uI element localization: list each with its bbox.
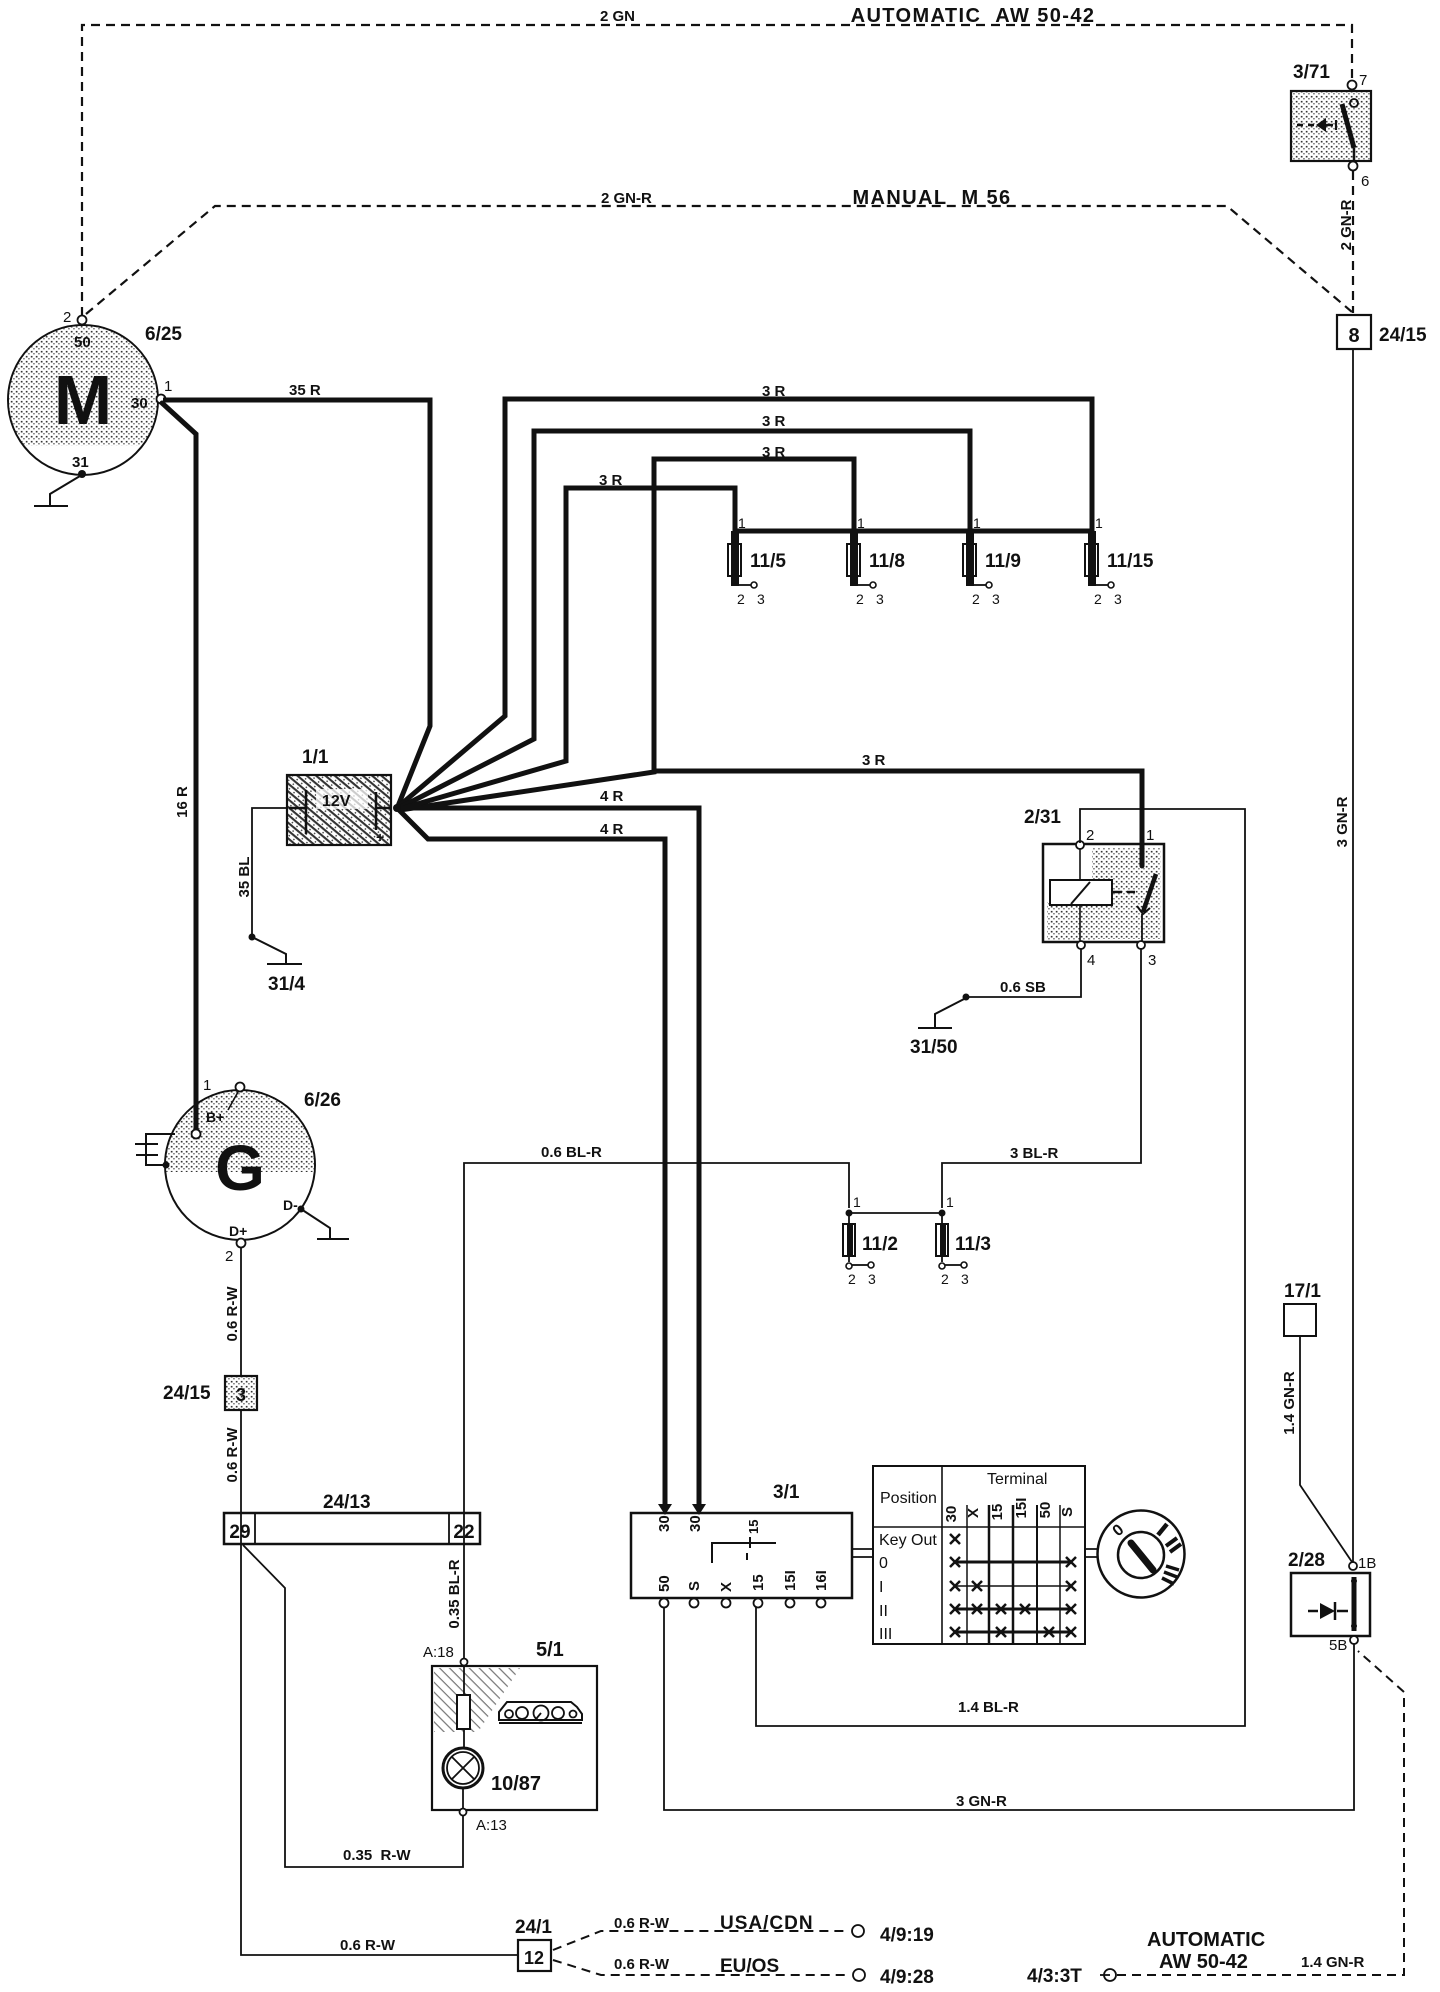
battery 1/1 bbox=[287, 747, 391, 845]
svg-text:B+: B+ bbox=[206, 1109, 224, 1125]
ground 31 of M bbox=[34, 476, 80, 506]
svg-text:4/9:19: 4/9:19 bbox=[880, 1925, 934, 1946]
wire dashed USA/CDN to 4/9:19 bbox=[553, 1931, 849, 1950]
pin 2 of relay bbox=[1076, 841, 1084, 849]
svg-text:3 R: 3 R bbox=[862, 752, 886, 769]
wire 35 BL battery negative bbox=[252, 808, 287, 936]
wire 0.6 BL-R from 11/2 to connector 22 bbox=[464, 1163, 849, 1513]
key switch symbol bbox=[1098, 1511, 1185, 1598]
wire 3 R to 11/5 bbox=[400, 488, 735, 809]
svg-text:0.6 R-W: 0.6 R-W bbox=[224, 1427, 241, 1483]
svg-text:S: S bbox=[1059, 1507, 1076, 1517]
svg-text:2: 2 bbox=[737, 591, 745, 607]
wire 35 R bbox=[163, 400, 430, 806]
table Position/Terminal bbox=[873, 1466, 1085, 1644]
svg-text:24/15: 24/15 bbox=[163, 1383, 211, 1404]
wire 3 R to relay 2/31 bbox=[654, 771, 1142, 864]
svg-text:D-: D- bbox=[283, 1197, 298, 1213]
gauge cluster icon bbox=[499, 1702, 582, 1723]
svg-text:0.6 R-W: 0.6 R-W bbox=[224, 1286, 241, 1342]
svg-text:3: 3 bbox=[1148, 952, 1156, 969]
svg-text:2: 2 bbox=[972, 591, 980, 607]
svg-text:30: 30 bbox=[656, 1515, 673, 1532]
svg-text:2: 2 bbox=[63, 309, 71, 326]
svg-text:3: 3 bbox=[868, 1271, 876, 1287]
connector 24/1 pin 12 bbox=[515, 1917, 552, 1971]
svg-text:0.35 BL-R: 0.35 BL-R bbox=[446, 1559, 463, 1628]
svg-text:4 R: 4 R bbox=[600, 821, 624, 838]
svg-text:2: 2 bbox=[941, 1271, 949, 1287]
wire 3 R to 11/8 and relay bbox=[400, 459, 854, 810]
fuse 11/3 bbox=[936, 1194, 991, 1287]
connector 24/15 pin 8 bbox=[1337, 315, 1427, 349]
svg-text:3 GN-R: 3 GN-R bbox=[1334, 796, 1351, 847]
svg-text:29: 29 bbox=[229, 1522, 250, 1543]
svg-text:3: 3 bbox=[992, 591, 1000, 607]
svg-text:2/28: 2/28 bbox=[1288, 1550, 1325, 1571]
fuse 11/2 bbox=[843, 1194, 898, 1287]
pin 15I of 3/1 bbox=[786, 1599, 795, 1608]
svg-text:2 GN-R: 2 GN-R bbox=[601, 190, 652, 207]
node battery negative junction bbox=[249, 934, 256, 941]
svg-text:2 GN-R: 2 GN-R bbox=[1338, 199, 1355, 250]
svg-text:0.6 SB: 0.6 SB bbox=[1000, 979, 1046, 996]
svg-text:D+: D+ bbox=[229, 1223, 247, 1239]
wire link 11/2 to 11/3 bbox=[849, 1212, 942, 1214]
wire relay pin 3 to 3 BL-R net bbox=[942, 948, 1141, 1208]
svg-text:1.4 GN-R: 1.4 GN-R bbox=[1281, 1371, 1298, 1435]
svg-text:3 R: 3 R bbox=[599, 472, 623, 489]
svg-text:35 R: 35 R bbox=[289, 382, 321, 399]
svg-text:50: 50 bbox=[74, 334, 91, 351]
svg-text:I: I bbox=[879, 1579, 883, 1596]
wire dashed 2 GN-R from pin 6 to connector 8 bbox=[1352, 171, 1354, 313]
svg-text:III: III bbox=[879, 1626, 892, 1643]
svg-text:X: X bbox=[965, 1508, 982, 1518]
generator G 6/26 bbox=[165, 1090, 341, 1240]
svg-text:15: 15 bbox=[746, 1520, 761, 1534]
svg-text:11/2: 11/2 bbox=[862, 1234, 898, 1255]
svg-text:2: 2 bbox=[1094, 591, 1102, 607]
svg-text:8: 8 bbox=[1348, 325, 1359, 347]
svg-text:0.6 R-W: 0.6 R-W bbox=[614, 1915, 670, 1932]
ground 31/50 bbox=[918, 998, 966, 1028]
wire 3 R to 11/15 bbox=[399, 399, 1092, 806]
svg-text:3: 3 bbox=[876, 591, 884, 607]
ground chassis of G bbox=[163, 1162, 170, 1169]
wire 0.6 R-W from D+ bbox=[240, 1247, 242, 1376]
svg-text:6: 6 bbox=[1361, 173, 1369, 190]
instrument cluster 5/1 bbox=[432, 1639, 597, 1810]
table row contacts bbox=[950, 1534, 1076, 1637]
svg-text:M: M bbox=[54, 361, 112, 439]
ignition switch 3/1 bbox=[631, 1482, 852, 1598]
wire 16 R bbox=[162, 403, 196, 1131]
wire dashed EU/OS to 4/9:28 bbox=[553, 1960, 850, 1975]
ignition coil 11/5 bbox=[728, 515, 786, 607]
wire 16 R end into G bbox=[194, 1086, 199, 1131]
wire dashed 2 GN (automatic) bbox=[82, 25, 1352, 316]
fuse inside 5/1 bbox=[463, 1666, 465, 1748]
pin 16I of 3/1 bbox=[817, 1599, 826, 1608]
svg-text:AW 50-42: AW 50-42 bbox=[1159, 1951, 1248, 1973]
svg-text:AUTOMATIC: AUTOMATIC bbox=[1147, 1929, 1265, 1951]
pin 4 of relay bbox=[1077, 941, 1085, 949]
wire 0.6 R-W below connector 3 bbox=[240, 1410, 242, 1513]
pin 3 of relay bbox=[1137, 941, 1145, 949]
svg-text:3 R: 3 R bbox=[762, 383, 786, 400]
relay 2/31 bbox=[1024, 807, 1164, 942]
svg-text:6/25: 6/25 bbox=[145, 324, 182, 345]
svg-text:11/9: 11/9 bbox=[985, 551, 1021, 572]
svg-text:24/15: 24/15 bbox=[1379, 325, 1427, 346]
svg-text:0.6 BL-R: 0.6 BL-R bbox=[541, 1144, 602, 1161]
wire link 3/1 to table bbox=[852, 1549, 873, 1557]
svg-text:0.6 R-W: 0.6 R-W bbox=[340, 1937, 396, 1954]
svg-text:2: 2 bbox=[1086, 827, 1094, 844]
wire relay pin 2 to 1.4 BL-R net bbox=[756, 809, 1245, 1726]
connector 24/13 bbox=[224, 1492, 480, 1544]
svg-text:2: 2 bbox=[225, 1248, 233, 1265]
wire 0.35 BL-R from pin 22 to A:18 bbox=[463, 1514, 465, 1659]
svg-text:Terminal: Terminal bbox=[987, 1471, 1047, 1488]
svg-text:3/1: 3/1 bbox=[773, 1482, 800, 1503]
svg-text:17/1: 17/1 bbox=[1284, 1281, 1321, 1302]
svg-text:11/5: 11/5 bbox=[750, 551, 786, 572]
ignition coil 11/9 bbox=[963, 515, 1021, 607]
svg-text:1: 1 bbox=[164, 378, 172, 395]
svg-text:1: 1 bbox=[946, 1194, 954, 1210]
svg-text:1: 1 bbox=[973, 515, 981, 531]
svg-text:3: 3 bbox=[236, 1385, 246, 1405]
svg-text:7: 7 bbox=[1359, 72, 1367, 89]
svg-text:2 GN: 2 GN bbox=[600, 8, 635, 25]
pin 31 of M bbox=[78, 470, 86, 478]
svg-text:10/87: 10/87 bbox=[491, 1773, 541, 1795]
svg-text:2: 2 bbox=[848, 1271, 856, 1287]
wire 0.6 R-W from pin 29 down bbox=[241, 1514, 517, 1955]
svg-text:4: 4 bbox=[1087, 952, 1095, 969]
diode unit 2/28 bbox=[1288, 1550, 1370, 1636]
pin 1B of 2/28 bbox=[1349, 1562, 1357, 1570]
svg-text:16I: 16I bbox=[813, 1570, 830, 1591]
svg-text:0: 0 bbox=[879, 1555, 888, 1572]
svg-text:3: 3 bbox=[1114, 591, 1122, 607]
svg-text:30: 30 bbox=[131, 395, 148, 412]
wire 3 GN-R from pin 50 to 5B bbox=[664, 1607, 1354, 1810]
component 17/1 bbox=[1284, 1281, 1321, 1336]
wire 0.6 SB from pin 4 bbox=[966, 949, 1081, 997]
wire link table to key bbox=[1085, 1549, 1098, 1557]
wire 4 R upper bbox=[399, 808, 699, 1506]
svg-text:5/1: 5/1 bbox=[536, 1639, 564, 1661]
svg-text:30: 30 bbox=[687, 1515, 704, 1532]
svg-text:1: 1 bbox=[1095, 515, 1103, 531]
svg-text:11/15: 11/15 bbox=[1107, 551, 1154, 572]
svg-text:4/9:28: 4/9:28 bbox=[880, 1967, 934, 1988]
svg-text:EU/OS: EU/OS bbox=[720, 1956, 779, 1977]
svg-text:Key Out: Key Out bbox=[879, 1532, 937, 1549]
wire dashed 2 GN-R (manual) bbox=[86, 206, 1352, 314]
pin X of 3/1 bbox=[722, 1599, 731, 1608]
svg-text:3: 3 bbox=[961, 1271, 969, 1287]
pin 1/30 of M bbox=[157, 395, 166, 404]
svg-text:USA/CDN: USA/CDN bbox=[720, 1913, 814, 1934]
pin 2 of M bbox=[78, 316, 87, 325]
wire lamp to A:13 bbox=[462, 1788, 464, 1809]
svg-text:4 R: 4 R bbox=[600, 788, 624, 805]
svg-text:1: 1 bbox=[738, 515, 746, 531]
svg-text:50: 50 bbox=[656, 1575, 673, 1592]
svg-text:3 R: 3 R bbox=[762, 413, 786, 430]
svg-text:12: 12 bbox=[524, 1948, 544, 1968]
svg-text:1: 1 bbox=[1146, 827, 1154, 844]
svg-text:16 R: 16 R bbox=[174, 786, 191, 818]
svg-text:1.4 BL-R: 1.4 BL-R bbox=[958, 1699, 1019, 1716]
svg-text:3 GN-R: 3 GN-R bbox=[956, 1793, 1007, 1810]
motor M 6/25 bbox=[5, 324, 182, 475]
pin D- of G bbox=[298, 1206, 305, 1213]
node junction 0.6 SB bbox=[963, 994, 970, 1001]
svg-text:31/50: 31/50 bbox=[910, 1037, 958, 1058]
svg-text:X: X bbox=[718, 1582, 735, 1592]
svg-text:31/4: 31/4 bbox=[268, 974, 305, 995]
connector 24/15 pin 3 bbox=[163, 1376, 257, 1410]
svg-text:Position: Position bbox=[880, 1490, 937, 1507]
svg-text:24/1: 24/1 bbox=[515, 1917, 552, 1938]
svg-text:G: G bbox=[215, 1132, 265, 1204]
svg-text:3: 3 bbox=[757, 591, 765, 607]
svg-text:S: S bbox=[686, 1581, 703, 1591]
svg-text:31: 31 bbox=[72, 454, 89, 471]
svg-text:15: 15 bbox=[989, 1504, 1006, 1521]
wire 1.4 GN-R from 17/1 bbox=[1300, 1336, 1352, 1562]
node battery positive junction bbox=[393, 804, 401, 812]
svg-text:30: 30 bbox=[943, 1506, 960, 1523]
svg-text:0.6 R-W: 0.6 R-W bbox=[614, 1956, 670, 1973]
svg-text:5B: 5B bbox=[1329, 1637, 1347, 1654]
pin 6 of 3/71 bbox=[1349, 162, 1358, 171]
pin A:13 of 5/1 bbox=[460, 1809, 467, 1816]
svg-text:6/26: 6/26 bbox=[304, 1090, 341, 1111]
svg-text:0.35 R-W: 0.35 R-W bbox=[343, 1847, 411, 1864]
ground of D- bbox=[301, 1209, 349, 1239]
pin 1/B+ of G bbox=[192, 1130, 201, 1139]
pin 15 of 3/1 bbox=[754, 1599, 763, 1608]
svg-text:II: II bbox=[879, 1603, 888, 1620]
svg-text:1B: 1B bbox=[1358, 1555, 1376, 1572]
svg-text:12V: 12V bbox=[322, 793, 351, 810]
svg-text:3/71: 3/71 bbox=[1293, 62, 1330, 83]
svg-text:MANUAL M 56: MANUAL M 56 bbox=[852, 187, 1011, 209]
svg-text:1: 1 bbox=[857, 515, 865, 531]
ignition coil 11/8 bbox=[847, 515, 905, 607]
svg-text:11/3: 11/3 bbox=[955, 1234, 991, 1255]
pin 50 of 3/1 bbox=[660, 1599, 669, 1608]
svg-text:11/8: 11/8 bbox=[869, 551, 905, 572]
svg-text:35 BL: 35 BL bbox=[236, 857, 253, 898]
svg-text:A:13: A:13 bbox=[476, 1817, 507, 1834]
svg-text:3 BL-R: 3 BL-R bbox=[1010, 1145, 1059, 1162]
ground 31/4 bbox=[252, 937, 302, 964]
svg-text:A:18: A:18 bbox=[423, 1644, 454, 1661]
svg-text:24/13: 24/13 bbox=[323, 1492, 371, 1513]
svg-text:50: 50 bbox=[1037, 1502, 1054, 1519]
pin S of 3/1 bbox=[690, 1599, 699, 1608]
svg-text:15I: 15I bbox=[1013, 1498, 1030, 1519]
pin D+/2 of G bbox=[237, 1239, 246, 1248]
svg-text:AUTOMATIC AW 50-42: AUTOMATIC AW 50-42 bbox=[851, 5, 1096, 27]
svg-text:2/31: 2/31 bbox=[1024, 807, 1061, 828]
pin A:18 of 5/1 bbox=[461, 1659, 468, 1666]
svg-text:15: 15 bbox=[750, 1574, 767, 1591]
svg-text:4/3:3T: 4/3:3T bbox=[1027, 1966, 1082, 1987]
svg-text:1: 1 bbox=[203, 1077, 211, 1094]
svg-text:1/1: 1/1 bbox=[302, 747, 329, 768]
wire 4 R lower bbox=[399, 810, 665, 1506]
svg-text:1: 1 bbox=[853, 1194, 861, 1210]
wire 0.35 R-W from pin 29 to A:13 bbox=[243, 1545, 463, 1867]
svg-text:2: 2 bbox=[856, 591, 864, 607]
ignition coil 11/15 bbox=[1085, 515, 1154, 607]
wire bus of coil pins 1 bbox=[735, 529, 1092, 534]
svg-text:15I: 15I bbox=[782, 1570, 799, 1591]
lamp 10/87 bbox=[443, 1748, 541, 1795]
wire 3 R to 11/9 bbox=[399, 431, 970, 808]
wire dashed 1.4 GN-R automatic bbox=[1117, 1651, 1404, 1975]
svg-text:+: + bbox=[376, 829, 384, 845]
svg-text:3 R: 3 R bbox=[762, 444, 786, 461]
pin 7 of 3/71 bbox=[1348, 81, 1357, 90]
pin 5B of 2/28 bbox=[1350, 1636, 1358, 1644]
wire 3 GN-R right vertical bbox=[1352, 349, 1354, 1562]
svg-text:1.4 GN-R: 1.4 GN-R bbox=[1301, 1954, 1365, 1971]
switch 3/71 bbox=[1291, 62, 1371, 162]
